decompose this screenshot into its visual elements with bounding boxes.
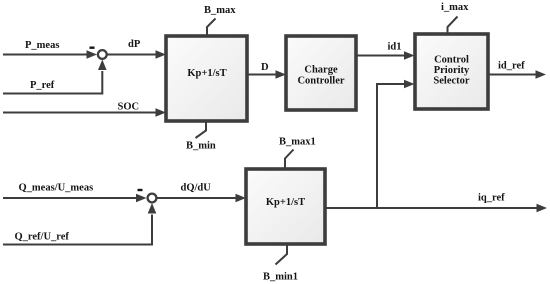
label D: [261, 62, 269, 73]
label i_max: [441, 2, 469, 13]
label P_ref: [30, 80, 55, 91]
svg-text:Kp+1/sT: Kp+1/sT: [187, 68, 226, 79]
summing junction S2: [148, 194, 157, 203]
svg-text:id_ref: id_ref: [498, 61, 525, 72]
svg-text:Controller: Controller: [297, 76, 344, 87]
wire P_ref input line: [3, 60, 107, 94]
block U4 PI regulator Kp+1/sT (reactive power): [246, 169, 325, 244]
svg-text:Kp+1/sT: Kp+1/sT: [266, 197, 305, 208]
svg-text:Priority: Priority: [434, 65, 470, 76]
label B_min: [186, 141, 216, 152]
label B_min1: [263, 272, 298, 283]
minus sign at S1: [90, 47, 95, 49]
svg-text:i_max: i_max: [441, 2, 469, 13]
wire id1 from charge controller to selector: [356, 51, 415, 60]
svg-text:P_meas: P_meas: [25, 40, 59, 51]
svg-text:id1: id1: [388, 42, 402, 53]
limiter tick i_max on U3 top: [448, 17, 458, 35]
label id_ref: [498, 61, 525, 72]
label B_max: [204, 5, 236, 16]
svg-text:Q_ref/U_ref: Q_ref/U_ref: [15, 232, 70, 243]
wire P_meas input line: [3, 50, 97, 59]
label P_meas: [25, 40, 59, 51]
wire dQ/dU from S2 to PI block: [157, 194, 246, 203]
svg-text:iq_ref: iq_ref: [478, 193, 505, 204]
wire SOC input line: [3, 108, 166, 117]
svg-text:Selector: Selector: [433, 76, 469, 87]
summing junction S1: [98, 50, 107, 59]
wire Q_meas/U_meas input line: [3, 194, 147, 203]
limiter tick B_max on U1 top: [207, 19, 216, 37]
limiter tick B_min on U1 bottom: [196, 121, 207, 138]
label id1: [388, 42, 402, 53]
wire id_ref output: [488, 70, 546, 79]
minus sign at S2: [138, 189, 143, 191]
svg-text:Charge: Charge: [304, 65, 338, 76]
wire D from U1 to charge controller: [247, 70, 286, 79]
label dQ/dU: [181, 183, 212, 194]
limiter tick B_max1 on U4 top: [285, 150, 294, 170]
wire Q_ref/U_ref input line: [3, 203, 156, 245]
label dP: [128, 39, 141, 50]
block U2 Charge Controller: [286, 36, 356, 110]
svg-text:Control: Control: [434, 55, 469, 66]
label Q_ref/U_ref: [15, 232, 70, 243]
wire branch from iq line up into selector second input: [377, 80, 415, 208]
label Q_meas/U_meas: [19, 183, 94, 194]
wire iq_ref output: [325, 204, 547, 213]
svg-text:dP: dP: [128, 39, 141, 50]
svg-text:D: D: [261, 62, 269, 73]
block U1 PI regulator Kp+1/sT (active power): [166, 36, 247, 121]
wire dP from S1 to PI block: [107, 50, 166, 59]
svg-text:dQ/dU: dQ/dU: [181, 183, 212, 194]
svg-text:B_min: B_min: [186, 141, 216, 152]
svg-text:P_ref: P_ref: [30, 80, 55, 91]
svg-text:B_max: B_max: [204, 5, 236, 16]
block U3 Control Priority Selector: [415, 34, 488, 109]
svg-text:B_max1: B_max1: [279, 137, 316, 148]
svg-text:Q_meas/U_meas: Q_meas/U_meas: [19, 183, 94, 194]
limiter tick B_min1 on U4 bottom: [276, 244, 288, 265]
label iq_ref: [478, 193, 505, 204]
svg-text:SOC: SOC: [118, 102, 140, 113]
label B_max1: [279, 137, 316, 148]
label SOC: [118, 102, 140, 113]
svg-text:B_min1: B_min1: [263, 272, 298, 283]
